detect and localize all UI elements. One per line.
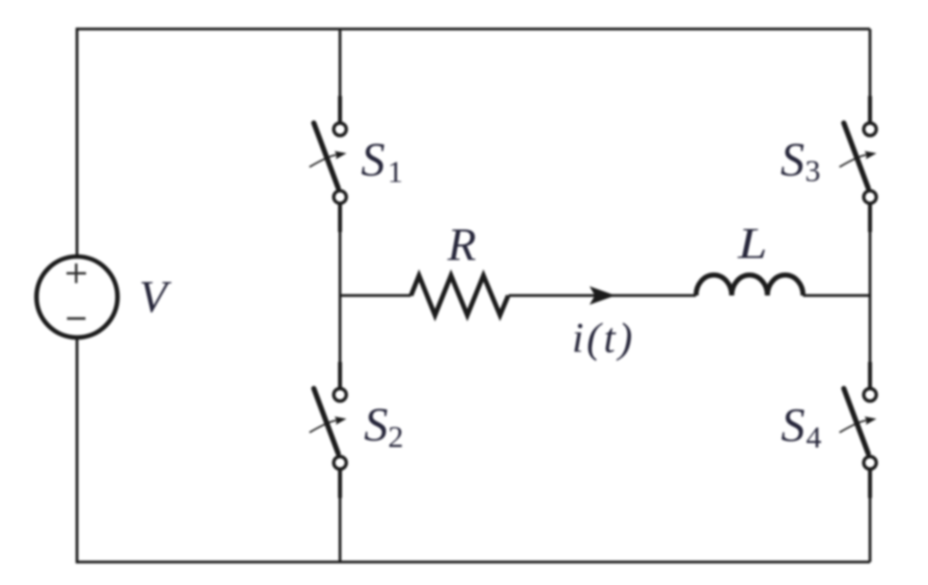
switch S3 stubs bbox=[868, 96, 872, 232]
svg-text:S: S bbox=[364, 399, 388, 452]
svg-text:S: S bbox=[781, 399, 805, 452]
switch S1 stubs bbox=[338, 96, 342, 232]
wire node-to-resistor bbox=[340, 294, 411, 297]
svg-text:S: S bbox=[781, 134, 805, 187]
switch S4 blade bbox=[844, 389, 868, 454]
voltage source plus sign bbox=[67, 264, 87, 284]
voltage source V1 circle bbox=[37, 257, 118, 338]
label S3 bbox=[781, 134, 821, 189]
wire middle branch center bbox=[339, 203, 342, 388]
wire resistor-to-inductor bbox=[509, 294, 697, 297]
wire top rail bbox=[77, 28, 870, 31]
wire right branch center bbox=[869, 203, 872, 388]
switch S2 stubs bbox=[338, 362, 342, 498]
wire left upper bbox=[76, 28, 79, 258]
label S4 bbox=[781, 399, 822, 455]
wire right branch lower bbox=[869, 469, 872, 562]
wire inductor-to-right bbox=[803, 294, 870, 297]
label S2 bbox=[364, 399, 404, 455]
switch S3 bottom contact bbox=[864, 191, 877, 204]
switch S3 top contact bbox=[864, 123, 877, 136]
svg-text:i(t): i(t) bbox=[572, 316, 635, 362]
svg-text:L: L bbox=[737, 219, 767, 268]
label S1 bbox=[361, 134, 403, 190]
label L bbox=[737, 219, 767, 268]
current arrow i(t) bbox=[590, 286, 616, 304]
svg-text:R: R bbox=[447, 219, 477, 271]
switch S1 bottom contact bbox=[334, 191, 347, 204]
switch S1 actuation arrow bbox=[310, 151, 347, 167]
switch S2 bottom contact bbox=[334, 457, 347, 470]
svg-text:1: 1 bbox=[388, 154, 404, 189]
switch S4 actuation arrow bbox=[840, 417, 877, 433]
svg-text:S: S bbox=[361, 134, 385, 187]
resistor R bbox=[411, 276, 508, 316]
switch S4 bottom contact bbox=[864, 457, 877, 470]
wire left lower bbox=[76, 337, 79, 563]
switch S3 blade bbox=[844, 123, 868, 188]
svg-text:3: 3 bbox=[805, 153, 821, 188]
wire right branch upper bbox=[869, 29, 872, 123]
switch S1 top contact bbox=[334, 123, 347, 136]
label i(t) bbox=[572, 316, 635, 362]
wire middle branch lower bbox=[339, 469, 342, 562]
switch S4 top contact bbox=[864, 389, 877, 402]
wire middle branch upper bbox=[339, 29, 342, 123]
switch S3 actuation arrow bbox=[840, 151, 877, 167]
inductor L bbox=[696, 275, 803, 296]
switch S1 blade bbox=[314, 123, 338, 188]
switch S2 blade bbox=[314, 389, 338, 454]
wire bottom rail bbox=[77, 561, 870, 564]
svg-text:V: V bbox=[139, 271, 172, 322]
label V bbox=[139, 271, 172, 322]
svg-text:2: 2 bbox=[388, 419, 404, 454]
voltage source minus sign bbox=[67, 317, 86, 319]
label R bbox=[447, 219, 477, 271]
svg-text:4: 4 bbox=[806, 420, 822, 455]
switch S2 actuation arrow bbox=[310, 417, 347, 433]
switch S2 top contact bbox=[334, 389, 347, 402]
switch S4 stubs bbox=[868, 362, 872, 498]
